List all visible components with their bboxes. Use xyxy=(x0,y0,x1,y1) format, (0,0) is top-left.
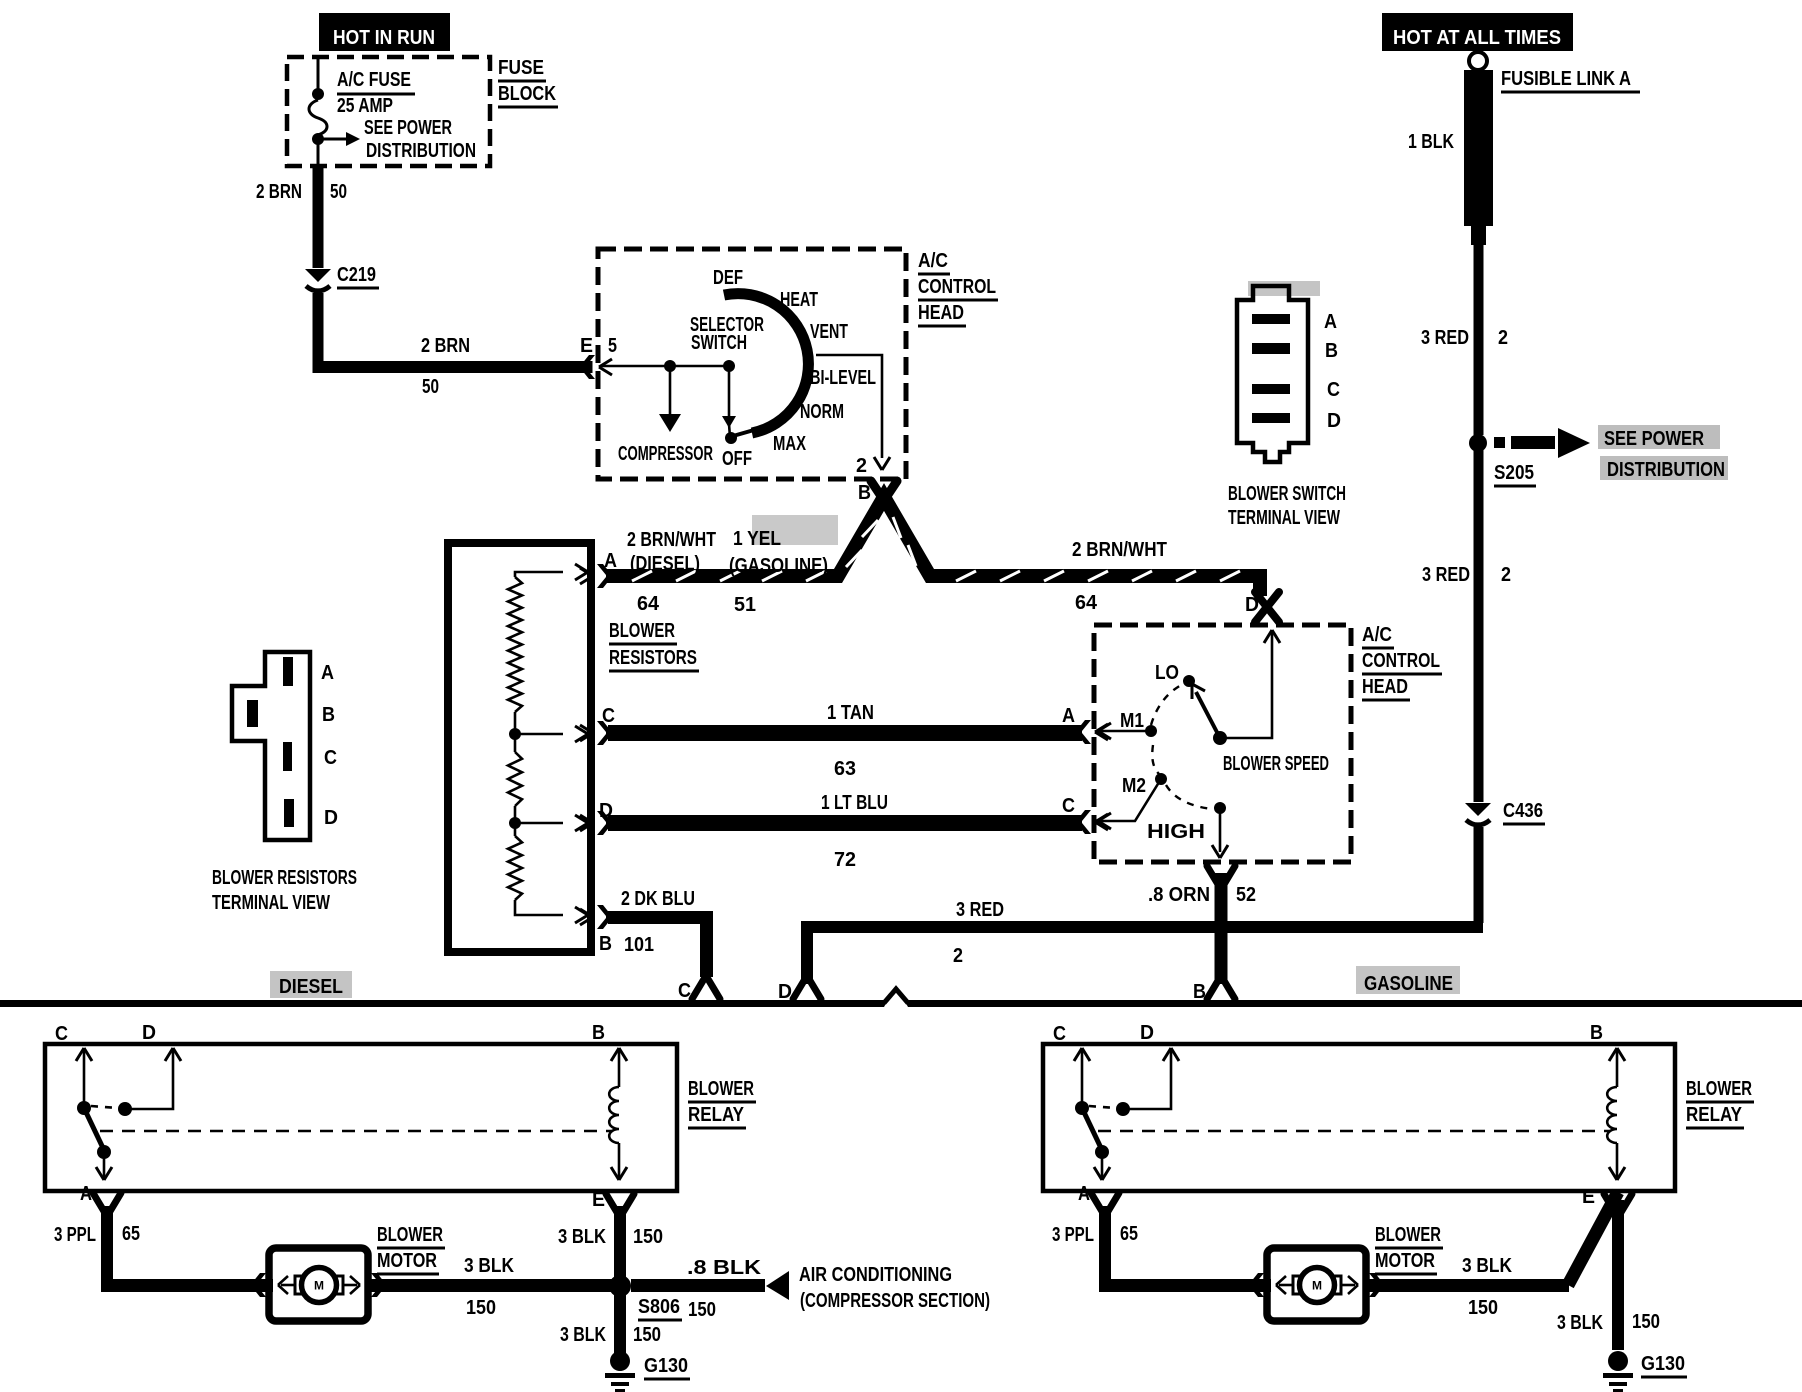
wire .8 BLK to compressor xyxy=(631,1271,789,1300)
label .8 ORN xyxy=(1148,884,1210,906)
label A/C FUSE xyxy=(337,69,415,94)
blower resistors pin labels xyxy=(321,662,338,829)
M1 wire to terminal A xyxy=(1098,723,1151,739)
label BI-LEVEL xyxy=(810,367,876,389)
A/C control head (blower speed) box dashed xyxy=(1094,625,1351,862)
label S205 xyxy=(1494,462,1536,486)
fuse block label FUSE BLOCK xyxy=(498,57,558,107)
label FUSIBLE LINK A xyxy=(1501,68,1640,92)
label BLOWER RELAY (gasoline) xyxy=(1686,1078,1754,1128)
svg-text:DISTRIBUTION: DISTRIBUTION xyxy=(366,140,476,162)
svg-text:65: 65 xyxy=(1120,1223,1138,1245)
blower relay (gasoline) box xyxy=(1043,1044,1675,1191)
label 50 (horizontal run) xyxy=(422,376,439,398)
svg-text:3 RED: 3 RED xyxy=(1421,327,1469,349)
label BLOWER RELAY (diesel) xyxy=(688,1078,756,1128)
svg-text:C: C xyxy=(55,1023,68,1045)
wire 3 BLK 150 motor to E (gasoline) xyxy=(1369,1192,1618,1292)
svg-text:A/C: A/C xyxy=(1362,624,1392,646)
label 63 xyxy=(834,758,856,780)
label 3 BLK (ground diesel) xyxy=(560,1324,606,1346)
svg-text:AIR CONDITIONING: AIR CONDITIONING xyxy=(799,1264,952,1286)
svg-text:1 YEL: 1 YEL xyxy=(733,528,781,550)
label 2 (horizontal) xyxy=(953,945,963,967)
label (GASOLINE) xyxy=(729,555,828,577)
svg-text:SEE POWER: SEE POWER xyxy=(364,117,452,139)
label 1 TAN xyxy=(827,702,874,724)
relay pin labels C D B (diesel) xyxy=(55,1022,605,1045)
wire 3 RED 2 (C436 down to horizontal run) xyxy=(801,827,1484,984)
svg-text:64: 64 xyxy=(1075,592,1098,614)
wire 2 BRN 50 (down then right to A/C control head) xyxy=(313,293,593,373)
svg-text:FUSE: FUSE xyxy=(498,57,544,79)
rotor arm to LO xyxy=(1192,684,1220,738)
svg-text:E: E xyxy=(580,335,593,357)
svg-text:C219: C219 xyxy=(337,264,376,286)
wire 3 PPL 65 (diesel) xyxy=(101,1206,273,1292)
svg-text:A: A xyxy=(1324,311,1337,333)
svg-text:C: C xyxy=(602,705,615,727)
node D tap xyxy=(509,806,521,829)
blower switch connector outline (terminal view) xyxy=(1237,286,1308,462)
label 1 YEL xyxy=(733,528,781,550)
svg-text:D: D xyxy=(324,807,338,829)
svg-text:3 BLK: 3 BLK xyxy=(560,1324,606,1346)
svg-text:3 BLK: 3 BLK xyxy=(558,1226,606,1248)
ground G130 (diesel) xyxy=(605,1351,635,1392)
svg-text:3 PPL: 3 PPL xyxy=(1052,1224,1094,1246)
gray highlight DISTRIBUTION xyxy=(1600,456,1728,480)
pin label D (resistors) xyxy=(599,800,613,822)
node LO contact xyxy=(1183,675,1195,687)
pin label B (divider) xyxy=(1193,981,1206,1003)
label 3 RED (upper) xyxy=(1421,327,1469,349)
svg-text:M1: M1 xyxy=(1120,710,1144,732)
switch position dashed arc xyxy=(1151,683,1212,809)
battery ring terminal xyxy=(1469,52,1487,70)
gray smudge above blower switch connector xyxy=(1248,281,1320,296)
svg-text:DIESEL: DIESEL xyxy=(279,976,343,998)
svg-text:2: 2 xyxy=(953,945,963,967)
label 64 (left) xyxy=(637,593,660,615)
svg-text:E: E xyxy=(1582,1186,1595,1208)
svg-text:.8 ORN: .8 ORN xyxy=(1148,884,1210,906)
svg-text:72: 72 xyxy=(834,849,856,871)
node rotor pivot xyxy=(1213,731,1227,745)
label BLOWER SPEED xyxy=(1223,753,1329,775)
terminal B of blower resistors xyxy=(580,905,611,929)
svg-text:1 TAN: 1 TAN xyxy=(827,702,874,724)
terminal A of gasoline relay xyxy=(1091,1193,1119,1213)
svg-text:(DIESEL): (DIESEL) xyxy=(630,553,700,575)
resistor chain bottom connection xyxy=(515,900,588,923)
svg-text:A: A xyxy=(604,550,617,572)
svg-text:M: M xyxy=(314,1279,324,1293)
see power distribution branch (S205) xyxy=(1494,428,1590,458)
svg-text:VENT: VENT xyxy=(810,321,848,343)
label 3 RED (lower) xyxy=(1422,564,1470,586)
HIGH output arrow xyxy=(1212,812,1228,858)
svg-text:CONTROL: CONTROL xyxy=(1362,650,1440,672)
svg-text:50: 50 xyxy=(422,376,439,398)
label 3 PPL (diesel) xyxy=(54,1224,96,1246)
see power distribution branch arrow (fuse block) xyxy=(318,132,360,146)
terminal C of control head 2 xyxy=(1077,810,1108,834)
svg-text:64: 64 xyxy=(637,593,660,615)
svg-text:NORM: NORM xyxy=(800,401,844,423)
pin label C (control head 2) xyxy=(1062,795,1075,817)
label 3 RED (horizontal) xyxy=(956,899,1004,921)
node OFF position xyxy=(725,432,737,444)
resistor R1 (A-C) xyxy=(508,577,522,712)
label LO xyxy=(1155,662,1179,684)
svg-text:B: B xyxy=(1325,340,1338,362)
tap wire to C xyxy=(515,726,588,742)
node M1 contact xyxy=(1145,725,1157,737)
pin label E (gasoline relay) xyxy=(1582,1186,1595,1208)
svg-text:C: C xyxy=(1062,795,1075,817)
node HIGH contact xyxy=(1214,802,1226,814)
wire 2 BRN/WHT / 1 YEL (hatched) from blower resistors A to control heads xyxy=(606,497,1260,596)
tap wire to D xyxy=(515,815,588,831)
svg-text:A: A xyxy=(1062,705,1075,727)
label 150 (ground gasoline) xyxy=(1632,1311,1660,1333)
pin label 2 (control head B) xyxy=(856,455,867,477)
svg-text:D: D xyxy=(142,1022,156,1044)
label M1 xyxy=(1120,710,1144,732)
svg-text:SWITCH: SWITCH xyxy=(691,332,747,354)
label BLOWER RESISTORS xyxy=(609,620,699,671)
terminal C of blower resistors xyxy=(580,721,611,745)
pin label A (diesel relay) xyxy=(80,1183,92,1205)
label 64 (right) xyxy=(1075,592,1098,614)
svg-text:BI-LEVEL: BI-LEVEL xyxy=(810,367,876,389)
label 51 xyxy=(734,594,756,616)
svg-text:MOTOR: MOTOR xyxy=(1375,1250,1435,1272)
connector B below control head (X horns at hatched apex) xyxy=(871,481,897,499)
terminal E pin 5 of control head xyxy=(581,355,612,379)
label 50 (upper) xyxy=(330,181,347,203)
label 1 BLK xyxy=(1408,131,1454,153)
label SEE POWER DISTRIBUTION (right) xyxy=(1604,428,1725,481)
pin label D (control head 2) xyxy=(1245,594,1259,616)
gray highlight SEE POWER xyxy=(1598,425,1720,449)
svg-text:2 BRN/WHT: 2 BRN/WHT xyxy=(1072,539,1167,561)
connector C219 xyxy=(305,264,379,291)
label 1 LT BLU xyxy=(821,792,888,814)
D feed into blower speed switch xyxy=(1222,630,1280,738)
svg-text:150: 150 xyxy=(633,1226,663,1248)
splice S806 xyxy=(609,1275,631,1297)
svg-text:.8 BLK: .8 BLK xyxy=(687,1257,762,1279)
svg-text:150: 150 xyxy=(1468,1297,1498,1319)
label DIESEL xyxy=(279,976,343,998)
svg-text:A: A xyxy=(321,662,334,684)
connector B at divider (gasoline feed) xyxy=(1207,979,1235,999)
svg-text:51: 51 xyxy=(734,594,756,616)
blower relay (diesel) internals: switch and coil xyxy=(76,1048,627,1180)
pin label C (divider) xyxy=(678,980,691,1002)
node C tap xyxy=(509,712,521,740)
wire 3 BLK 150 E to ground (gasoline) xyxy=(1612,1200,1624,1350)
fuse block box (dashed) xyxy=(287,57,490,166)
svg-text:D: D xyxy=(1140,1022,1154,1044)
blower switch pin labels xyxy=(1324,311,1341,432)
wire motor to S806 3 BLK 150 (diesel) xyxy=(371,1279,615,1292)
svg-text:B: B xyxy=(592,1022,605,1044)
svg-text:52: 52 xyxy=(1236,884,1256,906)
label M2 xyxy=(1122,775,1146,797)
svg-text:LO: LO xyxy=(1155,662,1179,684)
label 3 BLK (diesel upper) xyxy=(558,1226,606,1248)
svg-text:63: 63 xyxy=(834,758,856,780)
label A/C CONTROL HEAD (selector) xyxy=(918,250,998,326)
svg-text:C: C xyxy=(1327,379,1340,401)
pin label D (divider) xyxy=(778,981,792,1003)
svg-text:BLOWER SPEED: BLOWER SPEED xyxy=(1223,753,1329,775)
label 25 AMP xyxy=(337,95,393,117)
A/C control head (selector) box dashed xyxy=(598,249,906,479)
svg-text:B: B xyxy=(1590,1022,1603,1044)
power label HOT IN RUN xyxy=(319,13,450,51)
svg-text:HOT AT ALL TIMES: HOT AT ALL TIMES xyxy=(1393,27,1561,49)
compressor feed arrow xyxy=(659,366,681,432)
wire 3 PPL 65 (gasoline) xyxy=(1099,1206,1271,1292)
connector at control head 2 bottom (.8 ORN) xyxy=(1207,866,1235,886)
svg-text:2 BRN/WHT: 2 BRN/WHT xyxy=(627,529,716,551)
svg-text:C436: C436 xyxy=(1503,800,1543,822)
pin label E xyxy=(580,335,593,357)
svg-text:2 BRN: 2 BRN xyxy=(256,181,302,203)
label G130 (diesel) xyxy=(644,1355,690,1379)
pin label A (resistors) xyxy=(604,550,617,572)
svg-text:HIGH: HIGH xyxy=(1147,821,1205,843)
wire 1 LT BLU 72 xyxy=(608,815,1082,831)
svg-text:2: 2 xyxy=(856,455,867,477)
blower resistors box xyxy=(448,543,591,952)
svg-text:B: B xyxy=(599,933,612,955)
pin label 5 xyxy=(608,335,617,357)
label 2 BRN/WHT (right) xyxy=(1072,539,1167,561)
label 150 (motor diesel) xyxy=(466,1297,496,1319)
svg-text:OFF: OFF xyxy=(722,448,752,470)
label 2 DK BLU xyxy=(621,888,695,910)
label .8 BLK xyxy=(687,1257,762,1279)
svg-text:COMPRESSOR: COMPRESSOR xyxy=(618,443,713,465)
svg-text:150: 150 xyxy=(1632,1311,1660,1333)
svg-text:BLOWER: BLOWER xyxy=(1375,1224,1441,1246)
svg-text:E: E xyxy=(592,1189,605,1211)
svg-text:1 LT BLU: 1 LT BLU xyxy=(821,792,888,814)
relay pin labels C D B (gasoline) xyxy=(1053,1022,1603,1045)
blower motor (gasoline) xyxy=(1250,1248,1383,1321)
svg-text:2 BRN: 2 BRN xyxy=(421,335,470,357)
label 2 (lower) xyxy=(1501,564,1511,586)
pin label 101 xyxy=(624,934,654,956)
svg-text:25 AMP: 25 AMP xyxy=(337,95,393,117)
svg-text:B: B xyxy=(322,704,335,726)
pin label A (control head 2) xyxy=(1062,705,1075,727)
label 150 (diesel upper) xyxy=(633,1226,663,1248)
pin label C (resistors) xyxy=(602,705,615,727)
label (DIESEL) xyxy=(630,553,700,575)
gray smudge behind 1 YEL xyxy=(752,515,838,545)
svg-text:BLOCK: BLOCK xyxy=(498,83,556,105)
svg-text:RELAY: RELAY xyxy=(688,1104,745,1126)
link OFF to arc xyxy=(733,430,754,436)
svg-text:MAX: MAX xyxy=(773,433,806,455)
svg-text:2 DK BLU: 2 DK BLU xyxy=(621,888,695,910)
svg-text:BLOWER RESISTORS: BLOWER RESISTORS xyxy=(212,867,357,889)
node on selector wire 2 xyxy=(723,360,735,372)
resistor chain top connection xyxy=(515,564,588,580)
blower resistors connector outline (terminal view) xyxy=(232,652,310,840)
svg-text:BLOWER: BLOWER xyxy=(377,1224,443,1246)
svg-text:A: A xyxy=(80,1183,92,1205)
label SEE POWER DISTRIBUTION (fuse block) xyxy=(364,117,476,162)
resistor R2 (C-D) xyxy=(508,734,522,806)
svg-text:150: 150 xyxy=(688,1299,716,1321)
blower relay (diesel) box xyxy=(45,1044,677,1191)
svg-text:HEAD: HEAD xyxy=(918,302,964,324)
svg-text:BLOWER: BLOWER xyxy=(1686,1078,1752,1100)
wire S806 to ground 3 BLK 150 xyxy=(614,1292,626,1354)
label GASOLINE xyxy=(1364,973,1453,995)
svg-text:HEAD: HEAD xyxy=(1362,676,1408,698)
connector C at divider (diesel feed) xyxy=(692,979,720,999)
label 65 (diesel) xyxy=(122,1223,140,1245)
label 72 xyxy=(834,849,856,871)
svg-text:DISTRIBUTION: DISTRIBUTION xyxy=(1607,459,1725,481)
label HEAT xyxy=(780,289,818,311)
pin label A (gasoline relay) xyxy=(1078,1183,1090,1205)
svg-text:(GASOLINE): (GASOLINE) xyxy=(729,555,828,577)
selector switch common wire xyxy=(600,365,729,368)
svg-text:D: D xyxy=(1327,410,1341,432)
label 150 (S806) xyxy=(688,1299,716,1321)
label BLOWER MOTOR (diesel) xyxy=(377,1224,445,1274)
diesel/gasoline divider line xyxy=(0,986,1802,1007)
ground G130 (gasoline) xyxy=(1603,1351,1633,1392)
selector output wire to terminal B xyxy=(816,355,890,470)
label 2 (upper) xyxy=(1498,327,1508,349)
label BLOWER MOTOR (gasoline) xyxy=(1375,1224,1443,1274)
label S806 xyxy=(638,1296,682,1320)
node M2 contact xyxy=(1155,773,1167,785)
M2 wire to terminal C xyxy=(1098,779,1161,829)
svg-text:C: C xyxy=(1053,1023,1066,1045)
label 150 (ground diesel) xyxy=(633,1324,661,1346)
svg-text:B: B xyxy=(1193,981,1206,1003)
svg-text:3 RED: 3 RED xyxy=(956,899,1004,921)
svg-text:C: C xyxy=(324,747,337,769)
label OFF xyxy=(722,448,752,470)
label COMPRESSOR xyxy=(618,443,713,465)
fuse F1 A/C FUSE 25 AMP element xyxy=(309,100,327,135)
wire .8 ORN 52 xyxy=(1215,873,1228,984)
svg-text:B: B xyxy=(858,482,871,504)
svg-text:GASOLINE: GASOLINE xyxy=(1364,973,1453,995)
svg-text:3 BLK: 3 BLK xyxy=(464,1255,514,1277)
connector C436 xyxy=(1465,800,1545,825)
node at fuse top xyxy=(312,88,324,100)
pin label E (diesel relay) xyxy=(592,1189,605,1211)
svg-text:DEF: DEF xyxy=(713,267,743,289)
svg-text:RESISTORS: RESISTORS xyxy=(609,647,697,669)
svg-text:MOTOR: MOTOR xyxy=(377,1250,437,1272)
label BLOWER SWITCH TERMINAL VIEW xyxy=(1228,483,1346,529)
svg-text:3 BLK: 3 BLK xyxy=(1462,1255,1512,1277)
label 150 (motor gasoline) xyxy=(1468,1297,1498,1319)
svg-text:3 RED: 3 RED xyxy=(1422,564,1470,586)
svg-text:50: 50 xyxy=(330,181,347,203)
svg-text:G130: G130 xyxy=(1641,1353,1685,1375)
splice S205 xyxy=(1469,434,1487,452)
selector OFF branch xyxy=(722,366,736,437)
svg-text:S806: S806 xyxy=(638,1296,680,1318)
label A/C CONTROL HEAD (blower speed) xyxy=(1362,624,1442,700)
wire 3 BLK 150 (E to S806) xyxy=(614,1206,626,1286)
svg-text:101: 101 xyxy=(624,934,654,956)
terminal A of diesel relay xyxy=(93,1193,121,1213)
svg-text:D: D xyxy=(778,981,792,1003)
node at fuse bottom xyxy=(312,133,324,145)
terminal E of diesel relay xyxy=(606,1194,634,1214)
svg-text:65: 65 xyxy=(122,1223,140,1245)
svg-text:D: D xyxy=(1245,594,1259,616)
label 3 PPL (gasoline) xyxy=(1052,1224,1094,1246)
wire 1 BLK below fusible link xyxy=(1474,245,1484,435)
blower motor (diesel) xyxy=(252,1248,385,1321)
label G130 (gasoline) xyxy=(1641,1353,1687,1377)
svg-text:C: C xyxy=(678,980,691,1002)
svg-text:FUSIBLE LINK A: FUSIBLE LINK A xyxy=(1501,68,1631,90)
svg-text:RELAY: RELAY xyxy=(1686,1104,1743,1126)
svg-text:CONTROL: CONTROL xyxy=(918,276,996,298)
terminal E of gasoline relay xyxy=(1604,1194,1632,1214)
label SELECTOR SWITCH xyxy=(690,314,764,354)
svg-text:HOT IN RUN: HOT IN RUN xyxy=(333,27,435,49)
resistor R3 (D-B) xyxy=(508,823,522,900)
terminal A of blower resistors xyxy=(580,564,611,588)
blower relay (gasoline) internals: switch and coil xyxy=(1074,1048,1625,1180)
svg-text:2: 2 xyxy=(1498,327,1508,349)
svg-text:2: 2 xyxy=(1501,564,1511,586)
label 52 xyxy=(1236,884,1256,906)
wire 3 RED 2 (S205 to C436) xyxy=(1474,450,1484,802)
svg-text:TERMINAL VIEW: TERMINAL VIEW xyxy=(1228,507,1340,529)
wire 1 TAN 63 xyxy=(608,725,1082,741)
gray highlight GASOLINE xyxy=(1356,966,1460,994)
wire from HOT IN RUN into fuse block xyxy=(317,57,320,92)
connector D into control head 2 (X) xyxy=(1255,592,1279,622)
fusible link A element xyxy=(1464,70,1493,245)
terminal A of control head 2 xyxy=(1077,720,1108,744)
svg-text:150: 150 xyxy=(633,1324,661,1346)
svg-text:A/C: A/C xyxy=(918,250,948,272)
svg-text:1 BLK: 1 BLK xyxy=(1408,131,1454,153)
label AIR CONDITIONING (COMPRESSOR SECTION) xyxy=(799,1264,990,1312)
label 3 BLK (motor gasoline) xyxy=(1462,1255,1512,1277)
terminal D of blower resistors xyxy=(580,811,611,835)
svg-text:BLOWER: BLOWER xyxy=(609,620,675,642)
label DEF xyxy=(713,267,743,289)
svg-text:5: 5 xyxy=(608,335,617,357)
label BLOWER RESISTORS TERMINAL VIEW xyxy=(212,867,357,914)
wire stub below fuse xyxy=(317,139,320,166)
svg-text:HEAT: HEAT xyxy=(780,289,818,311)
svg-text:150: 150 xyxy=(466,1297,496,1319)
